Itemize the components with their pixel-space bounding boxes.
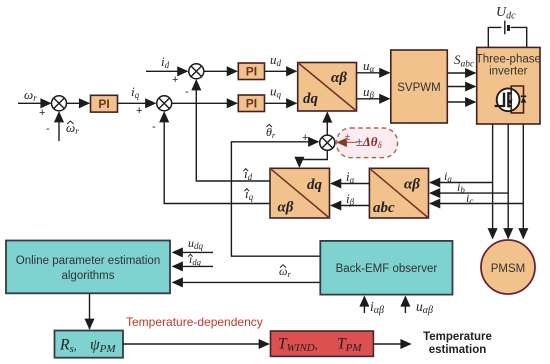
svg-text:PMSM: PMSM bbox=[491, 263, 526, 275]
wire: i_beta to dq2 bbox=[331, 205, 369, 207]
svg-text:+: + bbox=[39, 107, 45, 119]
wire: phase current i_b tap bbox=[430, 192, 508, 194]
summing junction S2 (q current) bbox=[157, 96, 172, 111]
summing junction S1 (speed) bbox=[52, 96, 67, 111]
svg-text:αβ: αβ bbox=[278, 200, 294, 216]
IGBT symbol inside inverter bbox=[495, 86, 527, 113]
PI controller (speed) bbox=[91, 95, 118, 112]
svg-text:PI: PI bbox=[98, 97, 109, 111]
svg-text:-: - bbox=[152, 121, 156, 133]
wire: Rs box to T box bbox=[123, 343, 269, 345]
Online parameter estimation block bbox=[6, 241, 170, 294]
svg-text:PI: PI bbox=[246, 65, 257, 79]
svg-text:algorithms: algorithms bbox=[61, 270, 114, 282]
svg-text:±: ± bbox=[345, 132, 350, 142]
dc source battery wiring bbox=[488, 27, 501, 47]
svg-text:SVPWM: SVPWM bbox=[397, 82, 440, 94]
wire: S3 to PI d bbox=[204, 70, 237, 72]
svg-text:+: + bbox=[172, 74, 178, 86]
wire: speed reference input bbox=[18, 102, 51, 104]
svg-text:Temperature: Temperature bbox=[423, 331, 492, 343]
wire: S4 angle to dq2 (down) bbox=[299, 150, 327, 167]
svg-text:Back-EMF observer: Back-EMF observer bbox=[336, 263, 438, 275]
wire: d current reference input bbox=[146, 70, 187, 72]
wire: iq_hat feedback from dq2 into S2 bbox=[164, 112, 270, 203]
svg-text:abc: abc bbox=[373, 200, 395, 216]
PI controller (q axis) bbox=[238, 95, 264, 112]
wire: S2 to PI q bbox=[172, 102, 237, 104]
svg-text:inverter: inverter bbox=[489, 66, 528, 78]
freewheel diode bbox=[521, 95, 527, 97]
svg-text:PI: PI bbox=[246, 97, 257, 111]
svg-text:estimation: estimation bbox=[429, 344, 487, 356]
wire: u_beta to SVPWM bbox=[357, 98, 390, 100]
svg-text:Temperature-dependency: Temperature-dependency bbox=[126, 315, 263, 329]
svg-text:Rs,: Rs, bbox=[59, 337, 77, 356]
wire: parameter block to Rs box bbox=[89, 293, 91, 328]
wire: i_alphabeta input to observer bbox=[363, 297, 365, 313]
svg-text:dq: dq bbox=[303, 91, 319, 107]
wire: u_alphabeta input to observer bbox=[404, 297, 406, 313]
svg-text:αβ: αβ bbox=[404, 177, 420, 193]
T_WIND T_PM box bbox=[271, 331, 374, 356]
wire: theta_hat from observer to S4 bbox=[231, 142, 320, 256]
wire: phase current i_a tap bbox=[430, 182, 492, 184]
svg-text:-: - bbox=[185, 86, 189, 98]
battery long plate bbox=[504, 21, 506, 35]
wire: S4 angle to dq1 (up) bbox=[326, 113, 328, 136]
PMSM machine bbox=[481, 240, 535, 294]
Rs psi_PM box bbox=[55, 331, 124, 358]
wire: id_hat feedback from dq2 into S3 bbox=[196, 80, 270, 181]
svg-text:+: + bbox=[136, 105, 142, 117]
wire: u_alpha to SVPWM bbox=[357, 72, 390, 74]
SVPWM block bbox=[391, 50, 448, 123]
svg-text:-: - bbox=[46, 123, 50, 135]
Back-EMF observer block bbox=[320, 241, 452, 295]
transform block alpha-beta to dq (U4) bbox=[270, 168, 330, 218]
transform block abc to alpha-beta (U3) bbox=[369, 168, 428, 218]
PI controller (d axis) bbox=[238, 63, 264, 80]
wire: T box to temperature estimation bbox=[373, 343, 410, 345]
wire: PI d to dq1, label u_d bbox=[265, 70, 297, 72]
svg-text:+: + bbox=[302, 132, 308, 144]
wire: estimated speed feedback into S1 bbox=[58, 112, 60, 141]
dashed injection box +/- delta theta bbox=[337, 128, 398, 158]
wire: PI speed to S2 bbox=[118, 102, 156, 104]
angle summing junction S4 bbox=[320, 135, 335, 150]
transform block dq to alpha-beta (U2) bbox=[298, 63, 357, 112]
wire: gate signals SVPWM to inverter (3) bbox=[447, 72, 475, 74]
svg-text:Three-phase: Three-phase bbox=[476, 54, 541, 66]
wire: S1 to PI speed bbox=[67, 102, 90, 104]
wire: i_alpha to dq2 bbox=[331, 183, 369, 185]
svg-text:dq: dq bbox=[307, 177, 323, 193]
three-phase inverter block bbox=[476, 47, 541, 124]
wire: omega_hat from observer to parameter block bbox=[173, 281, 320, 283]
wires: inverter to PMSM (3 phases) bbox=[492, 124, 494, 238]
summing junction S3 (d current) bbox=[189, 64, 204, 79]
battery short plate bbox=[507, 25, 510, 31]
svg-text:Online parameter estimation: Online parameter estimation bbox=[16, 255, 160, 267]
wire: phase current i_c tap bbox=[430, 203, 523, 205]
wire: u_dq input bbox=[173, 251, 213, 253]
wire: PI q to dq1, label u_q bbox=[265, 102, 297, 104]
wire: i_dq input bbox=[173, 265, 213, 267]
svg-text:αβ: αβ bbox=[331, 70, 347, 86]
